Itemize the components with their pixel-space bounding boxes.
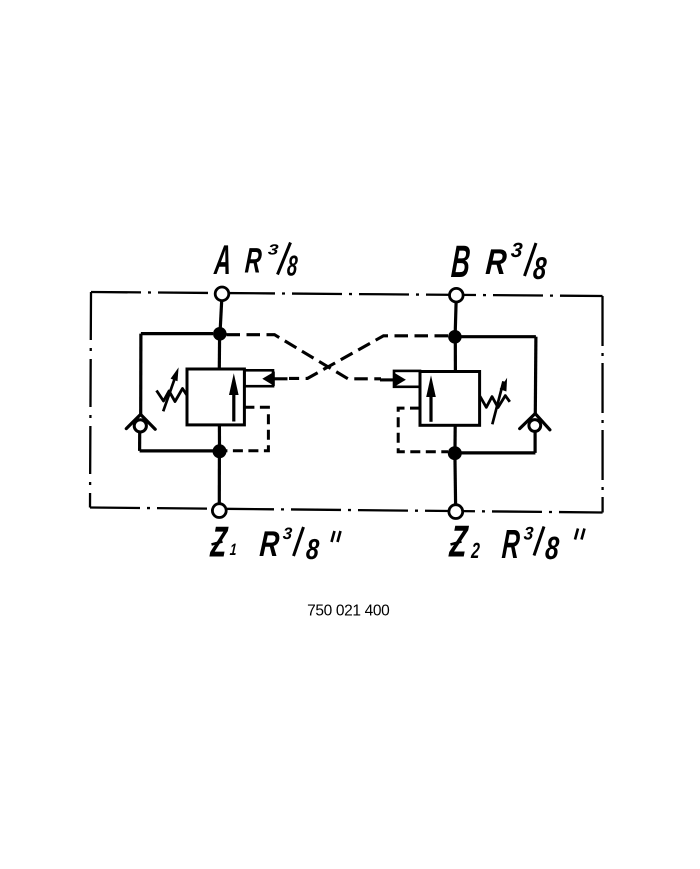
wire bottom left corner to junction Z1 xyxy=(140,449,214,452)
wire valve V1 bottom to junction Z1 xyxy=(218,425,221,448)
check valve C2 ball xyxy=(529,420,541,432)
port label Z2 fraction slash xyxy=(534,527,544,556)
svg-text:R: R xyxy=(484,242,508,282)
pilot port rectangle V1 xyxy=(244,370,273,386)
wire valve V2 bottom to junction Z2 xyxy=(453,425,456,449)
wire junction B right to check branch xyxy=(461,335,536,338)
wire check valve C2 down to bottom right corner xyxy=(533,432,536,453)
port Z1 xyxy=(212,504,226,518)
svg-text:1: 1 xyxy=(229,541,237,559)
wire junction A to valve V1 xyxy=(218,334,222,370)
svg-text:B: B xyxy=(450,236,472,286)
svg-text:8: 8 xyxy=(532,251,548,286)
pilot arrow V1 (points left) xyxy=(262,371,275,386)
svg-text:2: 2 xyxy=(470,538,481,563)
svg-text:750 021 400: 750 021 400 xyxy=(307,602,390,619)
svg-text:R: R xyxy=(244,242,263,281)
flow arrow inside V2 xyxy=(426,375,436,422)
check valve C2 seat chevron xyxy=(520,414,550,430)
enclosure boundary left (dash-dot) xyxy=(90,292,91,508)
junction node A xyxy=(213,327,227,341)
wire junction A left to check branch xyxy=(141,332,213,335)
spring V2 xyxy=(480,396,510,408)
junction node Z1 xyxy=(213,444,227,458)
wire port A to junction A xyxy=(220,301,222,334)
wire stub pilot V2 xyxy=(380,378,394,381)
wire junction Z1 to port Z1 xyxy=(218,451,221,504)
flow arrow inside V1 xyxy=(229,373,239,421)
wire bottom right corner to junction Z2 xyxy=(461,451,535,454)
wire junction Z2 to port Z2 xyxy=(453,453,457,505)
relief valve V2 body xyxy=(420,372,480,426)
port A xyxy=(215,287,229,301)
svg-text:Z: Z xyxy=(448,516,470,566)
port label Z2 inch marks xyxy=(575,529,585,540)
pilot arrow V2 (points right) xyxy=(393,372,406,387)
adjustment arrow V1 xyxy=(163,367,178,411)
enclosure boundary right (dash-dot) xyxy=(601,296,603,513)
svg-text:8: 8 xyxy=(305,533,321,566)
svg-text:A: A xyxy=(212,238,233,284)
wire junction B to valve V2 xyxy=(454,337,457,372)
check valve C1 ball xyxy=(134,420,146,432)
svg-text:3: 3 xyxy=(282,524,293,543)
pilot line junction A to valve V2 (dashed, crossing) xyxy=(227,335,382,379)
port label A fraction slash xyxy=(278,243,291,275)
check valve C1 seat chevron xyxy=(126,414,155,429)
enclosure boundary top (dash-dot) xyxy=(91,292,603,296)
junction node B xyxy=(448,330,462,344)
drain line valve V1 (dashed) xyxy=(226,407,268,451)
port label Z1 fraction slash xyxy=(294,527,304,556)
svg-text:R: R xyxy=(501,523,522,568)
relief valve V1 body xyxy=(187,369,244,425)
svg-text:R: R xyxy=(258,523,280,564)
pilot line junction B to valve V1 (dashed, crossing) xyxy=(289,336,448,379)
svg-text:3: 3 xyxy=(510,239,524,262)
svg-text:8: 8 xyxy=(286,250,299,282)
wire port B to junction B xyxy=(455,302,456,337)
svg-text:3: 3 xyxy=(523,523,534,544)
svg-text:3: 3 xyxy=(267,242,279,258)
drain line valve V2 (dashed) xyxy=(398,408,448,452)
wire left branch down to check valve C1 xyxy=(139,334,142,415)
pilot port rectangle V2 xyxy=(394,371,420,387)
wire check valve C1 to bottom left corner xyxy=(138,432,141,451)
port label B fraction slash xyxy=(525,243,537,276)
enclosure boundary bottom (dash-dot) xyxy=(90,508,603,513)
svg-text:8: 8 xyxy=(544,531,560,567)
port label Z1 cross stroke xyxy=(212,542,223,545)
junction node Z2 xyxy=(448,446,462,460)
adjustment arrow V2 xyxy=(492,378,507,425)
port B xyxy=(450,288,464,302)
port label Z2 cross stroke xyxy=(451,542,462,545)
spring V1 xyxy=(157,389,187,402)
port label Z1 inch marks xyxy=(332,531,341,542)
wire right branch down to check valve C2 xyxy=(534,337,538,414)
port Z2 xyxy=(449,505,463,519)
wire stub pilot V1 xyxy=(275,377,288,380)
